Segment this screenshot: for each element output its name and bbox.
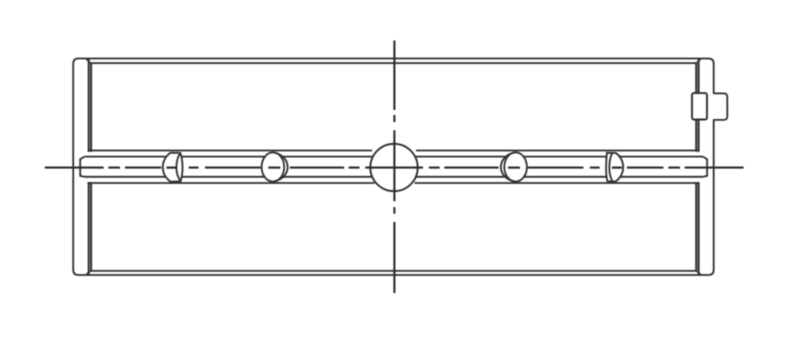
oil hole lens 1 <box>163 153 183 182</box>
inner bottom line <box>91 270 696 272</box>
shaft white cover <box>79 152 707 182</box>
oil hole circle 4 far arc <box>501 153 515 182</box>
shaft outer top line <box>88 150 699 152</box>
center flange circle 3 <box>370 144 417 191</box>
lug slot <box>692 93 707 119</box>
oil hole lens 5 near rim arc <box>609 153 612 181</box>
horizontal centerline <box>45 167 744 169</box>
locating lug <box>713 93 727 120</box>
outer housing boundary <box>73 59 714 276</box>
oil hole circle 2 <box>262 152 285 181</box>
oil hole lens 5 <box>606 153 623 182</box>
oil hole circle 4 <box>504 152 527 181</box>
oil hole circle 4 white area <box>501 153 515 182</box>
corner diagonal TR <box>696 59 701 63</box>
shaft bore top line <box>84 156 703 158</box>
oil hole lens 1 far rim arc <box>176 153 180 182</box>
centerline dash in circle 2 <box>268 167 280 169</box>
centerline dash in lens 1 <box>167 167 177 169</box>
oil hole circle 2 far arc <box>274 153 288 182</box>
centerline dash in lens 5 <box>612 167 622 169</box>
inner top line <box>91 62 696 64</box>
shaft outer bottom line <box>88 182 699 184</box>
right body edge <box>695 63 697 271</box>
vertical centerline <box>393 41 395 294</box>
corner diagonal BL <box>86 271 91 275</box>
left bar inner edge <box>88 59 90 275</box>
oil hole circle 2 white area <box>274 153 288 182</box>
shaft bore bottom line <box>84 176 703 178</box>
right bar inner edge <box>698 59 700 275</box>
shaft left end <box>80 157 84 177</box>
corner diagonal BR <box>696 271 701 275</box>
centerline dash in circle 4 <box>508 167 520 169</box>
shaft right end <box>703 157 707 177</box>
left body edge <box>90 63 92 271</box>
corner diagonal TL <box>86 59 91 63</box>
